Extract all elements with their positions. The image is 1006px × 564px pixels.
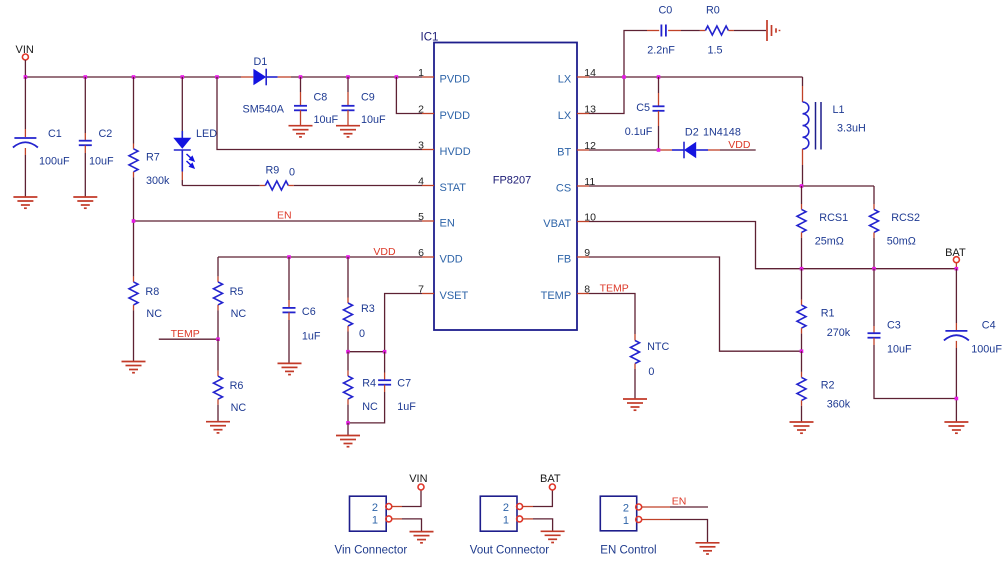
svg-text:R9: R9 [266,165,280,177]
svg-text:VIN: VIN [409,473,427,485]
svg-text:2: 2 [503,502,509,514]
svg-text:STAT: STAT [440,182,467,194]
svg-text:VDD: VDD [440,254,463,266]
node junction BAT/C4 [955,267,959,271]
resistor R5 NC [214,257,247,339]
svg-text:3: 3 [418,140,424,152]
svg-text:EN Control: EN Control [600,544,656,556]
svg-text:R6: R6 [230,380,244,392]
svg-text:1uF: 1uF [302,331,321,343]
svg-text:R2: R2 [821,380,835,392]
svg-text:NC: NC [231,308,247,320]
svg-text:3.3uH: 3.3uH [837,123,866,135]
svg-text:2: 2 [418,104,424,116]
node junction C2 [84,75,88,79]
resistor R8 NC [129,221,162,362]
wire VBAT pin10 to battery rail [589,222,956,269]
svg-text:C2: C2 [99,128,113,140]
node VIN (input terminal) [16,44,34,77]
wire CS pin11 [589,185,874,187]
inductor L1 3.3uH [803,77,866,186]
wire R4 bottom to ground [347,423,349,436]
ground R8 [122,362,146,373]
svg-text:1: 1 [418,67,424,79]
svg-text:5: 5 [418,211,424,223]
svg-text:R7: R7 [146,152,160,164]
svg-text:10uF: 10uF [314,114,339,126]
capacitor C7 1uF [348,352,416,423]
svg-text:C8: C8 [314,92,328,104]
pin 10 VBAT [543,212,596,231]
pin 5 EN [418,211,455,230]
pin 4 STAT [418,176,466,195]
svg-text:EN: EN [440,218,455,230]
svg-text:D2: D2 [685,127,699,139]
resistor R0 1.5 (snubber) [681,5,766,57]
ground C6 [278,363,302,374]
wire Vout pin1 to ground [523,519,553,531]
node junction R3/R4 [346,350,350,354]
svg-text:2: 2 [623,503,629,515]
capacitor C8 10uF [294,77,339,126]
svg-text:C3: C3 [887,320,901,332]
svg-text:R3: R3 [361,303,375,315]
pin 12 BT [557,140,596,159]
LED D (indicator) [173,77,217,186]
ground C2 [73,197,97,208]
pin 14 LX [558,67,596,86]
resistor R7 300k [129,77,170,221]
node junction C6/VDD [287,255,291,259]
svg-text:100uF: 100uF [39,156,70,168]
node junction C5 bottom / BT [657,148,661,152]
svg-text:LX: LX [558,110,572,122]
wire Vin pin2 to VIN terminal [392,490,421,507]
capacitor C5 0.1uF (bootstrap) [625,77,665,150]
resistor R1 270k [797,269,851,352]
svg-text:R4: R4 [362,378,376,390]
node VIN terminal (connector) [409,473,427,490]
node junction TEMP/R5/R6 [216,337,220,341]
svg-text:BAT: BAT [540,473,561,485]
node junction R7 [132,75,136,79]
pin 7 VSET [418,284,468,303]
ground snubber (rotated) [767,20,780,41]
resistor R2 360k [797,351,851,422]
node junction C8 [299,75,303,79]
svg-text:Vout Connector: Vout Connector [470,544,549,556]
node junction LED [181,75,185,79]
wire EN pin1 to ground [642,520,708,543]
wire VIN top rail [25,76,241,78]
svg-text:RCS1: RCS1 [819,212,848,224]
svg-text:BT: BT [557,147,571,159]
svg-text:R5: R5 [230,286,244,298]
wire R3 bottom to C7 top [348,351,385,353]
svg-text:VBAT: VBAT [543,218,571,230]
svg-text:NC: NC [146,308,162,320]
svg-text:C5: C5 [636,102,650,114]
svg-text:C0: C0 [659,5,673,17]
svg-text:50mΩ: 50mΩ [887,236,916,248]
wire HVDD net (rail to pin3) [217,77,422,150]
svg-text:0.1uF: 0.1uF [625,126,653,138]
svg-text:TEMP: TEMP [600,283,629,295]
node junction R3/VDD [346,255,350,259]
svg-text:R1: R1 [821,308,835,320]
capacitor C1 100uF [13,77,70,197]
connector J1 Vin Connector [335,496,408,556]
svg-text:FP8207: FP8207 [493,175,532,187]
resistor RCS2 50mOhm [870,186,921,269]
svg-text:VDD: VDD [728,139,751,151]
ground NTC [623,399,647,410]
wire EN pin2 (EN net) [642,496,708,508]
capacitor C4 100uF [944,269,1002,422]
node BAT terminal [945,247,966,269]
node junction RCS2/C3 on rail [872,267,876,271]
node BAT terminal (connector) [540,473,561,490]
ground C4 [944,422,968,433]
op-amp U1 / IC FP8207 body [421,32,578,331]
pin 8 TEMP [541,284,591,303]
capacitor C3 10uF [868,269,957,399]
resistor R4 NC [344,352,378,423]
node junction HVDD [215,75,219,79]
capacitor C2 10uF [79,77,114,197]
svg-text:RCS2: RCS2 [891,212,920,224]
pin 2 PVDD [396,77,470,122]
resistor R3 0 [344,257,375,352]
ground R4/C7 [336,436,360,447]
svg-text:NTC: NTC [647,341,669,353]
ground C8 [289,126,313,137]
svg-text:2: 2 [372,502,378,514]
svg-text:EN: EN [672,496,687,508]
svg-text:25mΩ: 25mΩ [815,236,844,248]
node junction C9 [346,75,350,79]
wire TEMP net (left) [159,328,218,340]
connector J2 Vout Connector [470,496,549,556]
wire LX pin14 to L1 [589,76,803,78]
ground EN connector [696,543,720,554]
svg-text:SM540A: SM540A [243,104,285,116]
wire BT pin12 [589,149,659,151]
node junction VIN/C1 [24,75,28,79]
svg-text:Vin Connector: Vin Connector [335,544,408,556]
wire LX pin13 riser to snubber [589,31,647,114]
ground C1 [13,197,37,208]
pin 11 CS [556,176,595,195]
wire top rail D1 cathode to IC pin1 [291,76,422,78]
node junction FB/R1/R2 [800,349,804,353]
svg-text:TEMP: TEMP [171,328,200,340]
pin 9 FB [557,247,590,266]
svg-text:0: 0 [648,366,654,378]
svg-text:C9: C9 [361,92,375,104]
capacitor C0 2.2nF (snubber) [647,5,681,57]
svg-text:CS: CS [556,183,571,195]
node junction PVDD2 drop [395,75,399,79]
svg-text:1uF: 1uF [397,401,416,413]
svg-text:C1: C1 [48,128,62,140]
svg-text:0: 0 [359,328,365,340]
svg-text:HVDD: HVDD [440,146,471,158]
node junction C3/C4 bottom [955,397,959,401]
svg-text:NC: NC [231,402,247,414]
svg-text:100uF: 100uF [971,344,1002,356]
svg-text:10uF: 10uF [887,344,912,356]
node junction CS / L1 / RCS1 [800,184,804,188]
ground R6 [206,422,230,433]
svg-text:4: 4 [418,176,424,188]
node junction R4/C7 bottom [346,421,350,425]
svg-text:C6: C6 [302,306,316,318]
diode D1 SM540A [241,56,291,116]
svg-text:1: 1 [503,515,509,527]
svg-text:0: 0 [289,167,295,179]
svg-text:LX: LX [558,74,572,86]
svg-text:C4: C4 [982,320,996,332]
svg-text:1: 1 [372,515,378,527]
ground Vin connector [410,532,434,543]
resistor RCS1 25mOhm [797,186,848,269]
svg-text:VSET: VSET [440,290,469,302]
node junction C5 top [657,75,661,79]
svg-text:1N4148: 1N4148 [703,127,741,139]
svg-text:10uF: 10uF [89,156,114,168]
pin 13 LX [558,104,596,123]
wire FB pin9 to divider [589,257,802,351]
wire VDD net to pin6 [218,246,422,258]
svg-text:R0: R0 [706,5,720,17]
svg-text:2.2nF: 2.2nF [647,45,675,57]
ground R2 [790,422,814,433]
ground Vout connector [541,531,565,542]
wire VSET pin7 to R3/C7 [385,294,422,352]
wire TEMP pin8 to NTC [589,283,635,335]
svg-text:PVDD: PVDD [440,74,471,86]
node junction RCS1/R1 on rail [800,267,804,271]
wire Vout pin2 to BAT terminal [523,490,553,507]
svg-text:300k: 300k [146,175,170,187]
svg-text:R8: R8 [145,286,159,298]
svg-text:LED: LED [196,128,217,140]
resistor NTC 0 [631,334,670,399]
resistor R9 0 (STAT series) [182,165,422,191]
svg-text:1: 1 [623,515,629,527]
pin 1 PVDD [418,67,470,86]
svg-text:PVDD: PVDD [440,110,471,122]
svg-text:IC1: IC1 [421,32,439,44]
svg-text:360k: 360k [827,399,851,411]
svg-text:FB: FB [557,254,571,266]
pin 6 VDD [418,247,463,266]
connector J3 EN Control [600,496,656,556]
svg-text:VDD: VDD [373,246,396,258]
wire EN net to pin5 [134,210,423,222]
svg-text:270k: 270k [827,327,851,339]
wire Vin pin1 to ground [392,519,422,532]
svg-text:1.5: 1.5 [708,45,723,57]
resistor R6 NC [214,339,247,422]
pin 3 HVDD [418,140,471,159]
svg-text:10uF: 10uF [361,114,386,126]
ground C9 [336,126,360,137]
svg-text:D1: D1 [254,56,268,68]
capacitor C6 1uF [283,257,321,363]
svg-text:NC: NC [362,401,378,413]
node junction LX riser [622,75,626,79]
capacitor C9 10uF [342,77,387,126]
diode D2 1N4148 [672,127,756,159]
svg-text:EN: EN [277,210,292,222]
svg-text:TEMP: TEMP [541,290,572,302]
svg-text:C7: C7 [397,378,411,390]
svg-text:L1: L1 [833,104,845,116]
node junction VSET/C7 [383,350,387,354]
node junction EN/R7/R8 [132,219,136,223]
